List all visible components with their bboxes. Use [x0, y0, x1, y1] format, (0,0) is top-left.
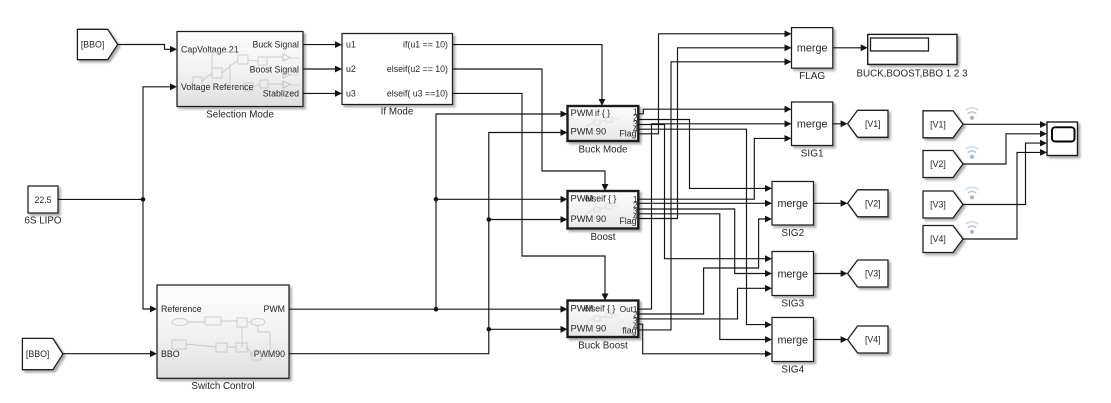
svg-text:PWM 90: PWM 90	[571, 214, 607, 224]
wire SIG1 to goto V1	[833, 123, 841, 125]
svg-text:PWM 90: PWM 90	[571, 127, 607, 137]
wire PWM branch to Boost	[436, 198, 561, 200]
junction constant net	[141, 197, 146, 202]
wire V1 to scope	[963, 123, 1041, 125]
svg-text:PWM: PWM	[264, 304, 286, 314]
goto tag [V4]	[848, 326, 888, 353]
Switch Control content preview	[172, 317, 270, 360]
svg-text:PWM 90: PWM 90	[571, 324, 607, 334]
wire Buck Boost out2 to SIG2	[638, 219, 765, 314]
from tag [BBO] top	[77, 29, 117, 59]
goto tag [V2]	[848, 190, 888, 217]
svg-text:[V4]: [V4]	[930, 234, 946, 244]
wireless icon V3	[966, 187, 978, 199]
wire Buck Boost out1 to SIG1	[638, 124, 785, 309]
wire Boost Flag to FLAG merge	[638, 48, 785, 219]
junction PWM90 net	[487, 217, 492, 222]
svg-text:FLAG: FLAG	[799, 71, 825, 82]
wire SIG4 to goto V4	[814, 339, 842, 341]
svg-text:merge: merge	[797, 119, 828, 131]
wire if out1 to Buck Mode action	[453, 45, 603, 100]
wire BBO top to Selection Mode	[118, 45, 171, 50]
svg-text:SIG4: SIG4	[781, 365, 804, 376]
svg-text:6S LIPO: 6S LIPO	[24, 216, 61, 227]
svg-text:SIG1: SIG1	[801, 149, 824, 160]
junction PWM net	[434, 307, 439, 312]
wire Switch PWM90 to Buck Mode PWM 90	[289, 133, 561, 354]
svg-text:Switch Control: Switch Control	[191, 381, 254, 392]
svg-text:if(u1 == 10): if(u1 == 10)	[403, 40, 448, 50]
wire Boost Signal to u2	[303, 68, 336, 70]
svg-text:BBO: BBO	[161, 349, 180, 359]
svg-text:SIG2: SIG2	[781, 228, 804, 239]
action subsystem Boost	[568, 191, 639, 229]
svg-text:[V3]: [V3]	[930, 200, 946, 210]
svg-text:[V4]: [V4]	[865, 335, 881, 345]
goto tag [V3]	[848, 260, 888, 287]
svg-text:Buck Signal: Buck Signal	[253, 40, 299, 50]
action subsystem Buck Boost	[568, 301, 639, 338]
wire V3 to scope	[963, 143, 1041, 204]
scope block	[1047, 122, 1078, 156]
action subsystem Buck Mode	[568, 106, 639, 141]
wire Switch PWM to Buck Boost PWM	[289, 308, 561, 310]
svg-text:[V1]: [V1]	[865, 119, 881, 129]
svg-text:Buck Boost: Buck Boost	[578, 341, 628, 352]
svg-text:CapVoltage 21: CapVoltage 21	[181, 44, 239, 54]
merge block SIG2	[772, 182, 814, 226]
svg-text:Stablized: Stablized	[263, 89, 299, 99]
wire PWM90 branch to Buck Boost	[489, 328, 561, 330]
wire 22.5 output	[58, 198, 143, 200]
svg-text:elseif( u3 ==10): elseif( u3 ==10)	[387, 89, 448, 99]
svg-text:merge: merge	[777, 334, 808, 346]
merge block FLAG	[792, 28, 833, 69]
wire elseif out3 to Buck Boost action	[453, 93, 606, 294]
from tag [BBO] bottom	[22, 338, 63, 369]
wire Buck out3 to SIG3	[638, 125, 765, 259]
wire Buck out2 to SIG2	[638, 120, 765, 189]
goto tag [V1]	[848, 110, 888, 137]
subsystem Switch Control	[157, 285, 289, 378]
svg-text:Boost Signal: Boost Signal	[250, 65, 299, 75]
wire Boost out3 to SIG3	[638, 209, 765, 274]
merge block SIG1	[792, 102, 833, 146]
wire FLAG to display	[833, 47, 861, 49]
from tag [V2] right	[923, 151, 963, 178]
wire Boost out1 to SIG1	[638, 138, 785, 199]
from tag [V4] right	[923, 226, 963, 253]
svg-text:Buck Mode: Buck Mode	[578, 145, 628, 156]
svg-text:[BBO]: [BBO]	[81, 40, 104, 50]
svg-text:u1: u1	[346, 40, 356, 50]
Selection Mode content preview	[193, 52, 299, 91]
svg-text:merge: merge	[777, 198, 808, 210]
constant 22.5 / 6S LIPO	[28, 186, 58, 213]
if block If Mode	[342, 34, 453, 105]
wire PWM branch to Buck Mode	[436, 114, 561, 309]
svg-text:Selection Mode: Selection Mode	[206, 110, 274, 121]
wire to Voltage Reference	[143, 87, 171, 200]
wireless icon V2	[966, 147, 978, 159]
svg-text:PWM: PWM	[571, 108, 594, 118]
subsystem Selection Mode	[177, 32, 303, 107]
wire Buck Boost flag to FLAG merge	[638, 62, 785, 330]
svg-text:u2: u2	[346, 64, 356, 74]
svg-text:Boost: Boost	[590, 232, 615, 243]
svg-text:[V1]: [V1]	[930, 119, 946, 129]
wire Buck Boost out4 to SIG4	[638, 324, 765, 354]
svg-text:BUCK,BOOST,BBO 1 2 3: BUCK,BOOST,BBO 1 2 3	[856, 69, 968, 80]
svg-text:4: 4	[633, 125, 638, 134]
svg-text:merge: merge	[777, 268, 808, 280]
svg-text:u3: u3	[346, 89, 356, 99]
wire Boost out2 to SIG2	[638, 202, 765, 204]
svg-text:22.5: 22.5	[34, 195, 51, 205]
wire BBO bottom to Switch Control	[63, 353, 151, 355]
wire PWM90 branch to Boost	[489, 219, 561, 221]
svg-text:elseif { }: elseif { }	[585, 194, 616, 204]
wire SIG2 to goto V2	[814, 202, 842, 204]
wire Buck Boost out3 to SIG3	[638, 288, 765, 319]
svg-text:[V2]: [V2]	[865, 198, 881, 208]
svg-text:If Mode: If Mode	[381, 107, 414, 118]
svg-text:elseif(u2 == 10): elseif(u2 == 10)	[387, 64, 448, 74]
svg-text:Reference: Reference	[161, 304, 202, 314]
wire Buck out1 to SIG1	[638, 109, 785, 114]
display block BUCK,BOOST,BBO 1 2 3	[868, 34, 957, 64]
junction PWM net 2	[434, 197, 439, 202]
junction PWM90 net 2	[487, 327, 492, 332]
svg-text:4: 4	[633, 322, 638, 331]
wire Buck out4 to SIG4	[638, 129, 765, 324]
svg-text:[V3]: [V3]	[865, 269, 881, 279]
svg-text:merge: merge	[797, 43, 828, 55]
svg-text:[V2]: [V2]	[930, 159, 946, 169]
wire V4 to scope	[963, 152, 1041, 239]
wire Buck Signal to u1	[303, 44, 336, 46]
svg-text:PWM90: PWM90	[254, 349, 285, 359]
from tag [V3] right	[923, 191, 963, 218]
wire elseif out2 to Boost action	[453, 69, 606, 185]
from tag [V1] right	[923, 111, 963, 138]
wire Buck Flag to FLAG merge	[638, 34, 785, 134]
merge block SIG3	[772, 252, 814, 296]
wireless icon V4	[966, 222, 978, 234]
wireless icon V1	[966, 108, 978, 120]
svg-text:elseif { }: elseif { }	[584, 303, 615, 313]
svg-text:SIG3: SIG3	[781, 299, 804, 310]
wire V2 to scope	[963, 134, 1041, 164]
merge block SIG4	[772, 318, 814, 362]
wire Boost out4 to SIG4	[638, 214, 765, 340]
wire SIG3 to goto V3	[814, 273, 842, 275]
wire Stablized to u3	[303, 92, 336, 94]
wire to Switch Control Reference	[143, 199, 151, 309]
svg-text:4: 4	[633, 213, 638, 222]
svg-text:[BBO]: [BBO]	[26, 349, 49, 359]
